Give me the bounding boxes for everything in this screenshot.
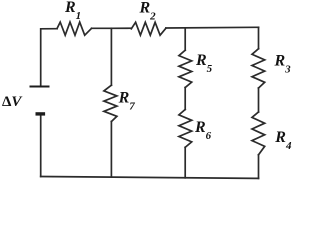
battery ΔV top plate — [30, 86, 50, 88]
wire R3 to R4 — [258, 88, 260, 112]
wire R2 to node B and on to top-right corner — [166, 26, 259, 29]
wire bottom rail — [41, 177, 259, 179]
resistor R4 — [252, 112, 265, 155]
wire R7 bottom lead to bottom rail — [110, 122, 112, 178]
svg-text:R4: R4 — [274, 129, 292, 152]
resistor R3 — [252, 49, 265, 88]
svg-text:R1: R1 — [64, 0, 81, 22]
svg-text:ΔV: ΔV — [2, 94, 23, 110]
resistor R7 — [104, 85, 117, 121]
svg-text:R7: R7 — [118, 90, 136, 113]
resistor R2 — [131, 22, 166, 35]
svg-text:R3: R3 — [274, 52, 292, 75]
resistor R1 — [57, 22, 92, 35]
svg-text:R6: R6 — [194, 119, 212, 142]
svg-text:R2: R2 — [139, 0, 157, 23]
resistor R5 — [179, 50, 192, 87]
svg-text:R5: R5 — [195, 52, 213, 75]
wire node A down to R7 — [110, 28, 112, 85]
wire R4 to bottom-right corner — [258, 155, 260, 179]
wire battery bottom plate down to bottom rail — [40, 115, 42, 177]
wire R1 to node A — [92, 27, 112, 29]
resistor R6 — [179, 110, 192, 148]
battery ΔV bottom plate — [36, 112, 46, 115]
wire node A to R2 — [111, 27, 131, 29]
wire top-right corner down to R3 — [258, 27, 260, 48]
wire R5 to R6 — [184, 88, 186, 110]
wire R6 to bottom rail — [184, 147, 186, 178]
wire node B down to R5 — [184, 28, 186, 50]
wire left branch: battery top plate up to top-left corner and right to R1 — [41, 29, 57, 86]
